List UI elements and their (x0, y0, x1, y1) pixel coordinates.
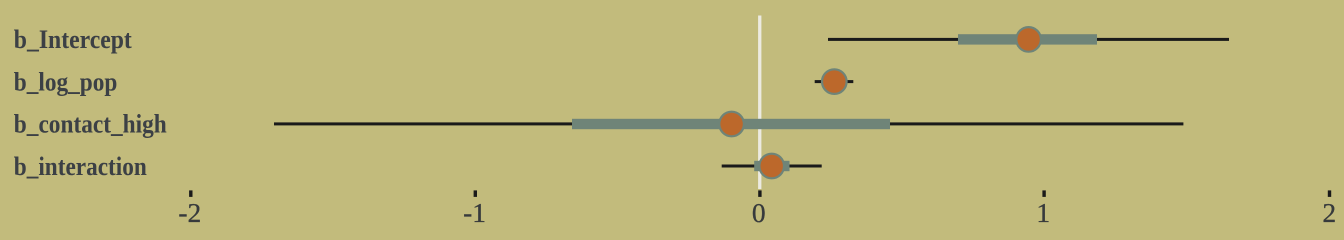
svg-text:b_interaction: b_interaction (14, 152, 147, 181)
svg-text:2: 2 (1322, 197, 1336, 228)
svg-text:1: 1 (1036, 197, 1050, 228)
svg-text:b_contact_high: b_contact_high (14, 110, 167, 139)
svg-text:-1: -1 (463, 197, 486, 228)
svg-text:-2: -2 (178, 197, 201, 228)
svg-text:b_log_pop: b_log_pop (14, 67, 118, 96)
svg-text:b_Intercept: b_Intercept (14, 25, 132, 54)
svg-text:0: 0 (752, 197, 766, 228)
